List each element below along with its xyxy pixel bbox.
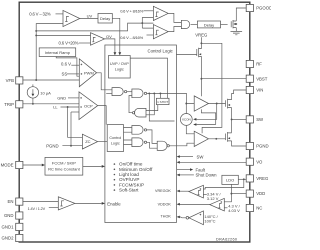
svg-text:1.4V / 1.2V: 1.4V / 1.2V	[28, 207, 46, 211]
arrow into XCON lower	[193, 123, 196, 126]
pin VFB	[6, 77, 23, 84]
box Delay (PGOOD)	[197, 21, 220, 28]
svg-text:GND1: GND1	[2, 225, 15, 230]
arrow into control logic (Enable)	[102, 202, 105, 205]
svg-text:VREG: VREG	[256, 176, 269, 181]
wire VREG sense to VREGOK comparator	[203, 179, 243, 189]
pin GND	[4, 212, 23, 219]
wire OCP output to lower control logic	[98, 106, 107, 125]
svg-text:100°C: 100°C	[204, 219, 215, 224]
svg-text:Control: Control	[109, 136, 121, 140]
pin VREG	[246, 175, 269, 182]
wire GND to OCP comparator	[68, 97, 79, 99]
pin VBST	[246, 75, 268, 82]
svg-text:EN: EN	[8, 199, 14, 204]
wire ref to UV comparator + input	[56, 13, 64, 15]
arrow into control logic (FCCM)	[102, 165, 105, 168]
svg-text:VREGOK: VREGOK	[155, 189, 171, 193]
svg-text:XCON: XCON	[182, 118, 191, 122]
wire 0.6V to PWM comparator	[71, 64, 79, 66]
svg-text:Shut Down: Shut Down	[196, 173, 218, 178]
transistor boot switch FET	[197, 43, 202, 59]
svg-text:UV: UV	[87, 14, 93, 19]
ground PGOOD FET	[231, 31, 243, 34]
svg-text:OCP: OCP	[84, 103, 93, 108]
svg-text:VFB: VFB	[6, 78, 14, 83]
node VREG branch	[200, 42, 202, 44]
svg-text:VO: VO	[256, 159, 263, 164]
gate5 NAND	[132, 138, 147, 147]
wire XCON to LS driver input	[186, 125, 194, 134]
comparator PWM	[79, 59, 96, 87]
comparator PGOOD upper	[153, 6, 168, 20]
wire LS source to PGND pin	[232, 141, 247, 146]
signal VO into control logic	[180, 161, 247, 163]
wire boot FET source down to VBST	[200, 59, 202, 96]
wire XCON to HS input line	[185, 104, 187, 114]
current source 10uA	[27, 84, 38, 103]
IC outer border	[19, 2, 250, 242]
svg-text:FCCM / SKIP: FCCM / SKIP	[52, 161, 76, 166]
comparator PGOOD lower	[153, 25, 168, 39]
node VFB trunk corner	[36, 24, 63, 80]
wire VREGOK output to control logic	[180, 190, 189, 192]
pin PGOOD	[246, 4, 272, 11]
list control logic functions	[114, 162, 153, 193]
circle XCON	[180, 114, 192, 126]
arrow into FCCM box	[42, 164, 45, 167]
wire OV output to UVP/OVP logic	[105, 39, 115, 53]
node junction VFB-OVline	[35, 30, 37, 32]
svg-text:PGOOD: PGOOD	[256, 6, 271, 11]
wire OCP lower input	[71, 111, 79, 113]
box Internal Ramp	[39, 48, 75, 57]
svg-text:VDDOK: VDDOK	[158, 202, 172, 206]
svg-text:VBST: VBST	[256, 76, 268, 81]
svg-text:0.6 V – 8/16%: 0.6 V – 8/16%	[120, 35, 143, 40]
box Control Logic (lower)	[107, 125, 123, 152]
pin TRIP	[4, 101, 23, 108]
svg-text:TRIP: TRIP	[4, 102, 14, 107]
pin RF	[246, 60, 262, 67]
wire SS to PWM comparator	[67, 73, 79, 75]
transistor PGOOD open-drain FET	[231, 20, 236, 28]
svg-text:1 SHOT: 1 SHOT	[157, 100, 168, 104]
svg-text:LDO: LDO	[226, 178, 234, 183]
wire 3.34V ref stub	[203, 194, 206, 196]
svg-text:SW: SW	[256, 117, 264, 122]
svg-text:Fault: Fault	[196, 167, 206, 172]
wire Delay2 to PGOOD FET gate	[221, 23, 228, 25]
transistor high-side FET	[226, 99, 232, 109]
svg-text:THOK: THOK	[161, 215, 172, 219]
svg-text:Delay: Delay	[204, 22, 214, 27]
wire XCON sense from HS gate	[196, 104, 216, 120]
pin SW	[246, 116, 264, 123]
wire Delay to UVP/OVP logic	[112, 18, 120, 53]
wire gate1 to gate2	[127, 91, 132, 93]
wire gate6 output to low-side driver	[169, 143, 194, 146]
wire VFB to PGOOD comparators	[36, 23, 153, 31]
arrow into UVP/OVP (UV)	[118, 52, 121, 55]
svg-text:0.6 V: 0.6 V	[61, 62, 71, 67]
wire FCCM box to control logic	[83, 165, 102, 167]
svg-text:GND2: GND2	[2, 236, 15, 241]
gate2 NAND latch	[132, 89, 147, 98]
svg-text:VREG: VREG	[195, 32, 208, 37]
gate1 NAND PWM latch input	[112, 88, 127, 96]
wire PWM comp to gate1	[97, 73, 112, 90]
comparator OCP	[79, 92, 98, 120]
wire VREG pin to LDO	[238, 178, 246, 180]
wire UVP/OVP logic to latch area	[130, 58, 167, 98]
node junction VREG sense	[243, 178, 245, 180]
svg-text:Delay: Delay	[100, 16, 110, 21]
box FCCM/SKIP RC time constant	[45, 157, 83, 175]
wire gate1 lower input stub	[106, 93, 112, 95]
pin NC	[246, 204, 262, 211]
wire fb split to comparator inputs	[142, 17, 153, 28]
wire latch output to high-side driver	[147, 93, 195, 103]
wire CL to gate5 inputs	[124, 140, 132, 145]
wire THOK output to control logic	[180, 216, 187, 219]
box LDO	[222, 175, 238, 184]
wire 4.3V ref stub	[224, 207, 227, 209]
pin GND2	[2, 234, 23, 241]
comparator VDDOK (mirrored)	[210, 198, 225, 211]
wire HS source to SW node	[231, 108, 233, 133]
svg-text:Internal Ramp: Internal Ramp	[45, 50, 71, 55]
wire SW node to pin	[232, 118, 247, 120]
wire ramp to PWM comparator	[56, 57, 79, 77]
svg-text:0.6 V+20%: 0.6 V+20%	[59, 41, 79, 46]
svg-text:GND: GND	[57, 95, 66, 100]
signal Shut Down	[180, 174, 194, 176]
wire XCON in2 from HS driver low side	[196, 109, 215, 124]
node junction VDD	[230, 193, 232, 195]
gate AND PGOOD	[181, 20, 189, 28]
node junction HS input / XCON	[185, 103, 187, 105]
wire lower comp to AND	[168, 27, 181, 32]
svg-text:Logic: Logic	[115, 68, 124, 72]
wire ref to PGOOD lower comparator	[147, 34, 154, 36]
svg-text:ZC: ZC	[85, 139, 90, 144]
pin PGND	[246, 142, 268, 149]
svg-text:VIN: VIN	[256, 88, 263, 93]
signal SW into control logic	[180, 156, 194, 158]
node junctions on latch output	[148, 92, 150, 94]
node junction VFB-PWM	[35, 79, 37, 81]
node junction LL	[67, 106, 69, 108]
svg-text:OV: OV	[106, 34, 112, 39]
gate4 NAND	[132, 126, 147, 135]
transistor low-side FET	[226, 132, 232, 142]
wire gate4 to gate6	[147, 130, 158, 144]
arrow into XCON upper	[193, 118, 196, 121]
wire VREG stub to boot FET	[200, 37, 202, 43]
box Control Logic (main)	[105, 45, 176, 223]
arrow into UVP/OVP (OV)	[114, 52, 117, 55]
node junction PGND branch	[70, 145, 72, 147]
driver high-side	[194, 96, 208, 111]
wire gate3 output to gate2 lower input	[129, 96, 133, 113]
wire internal bus	[149, 93, 174, 121]
wire VFB to OV comparator	[36, 34, 90, 36]
wire MODE pin to FCCM box	[23, 164, 42, 166]
wire PGND up to OCP lower input	[70, 112, 72, 146]
svg-text:Control Logic: Control Logic	[148, 48, 174, 53]
wire ZC output to lower control logic	[98, 141, 108, 143]
svg-text:RC time Constant: RC time Constant	[48, 167, 80, 172]
wire LDO output to VDD	[224, 184, 231, 201]
wire AND to Delay2	[191, 23, 198, 25]
svg-text:VDD: VDD	[256, 191, 265, 196]
box UVP/OVP Logic	[109, 56, 131, 79]
wire UV comp output to Delay	[80, 18, 98, 20]
svg-text:PGND: PGND	[46, 144, 58, 149]
wire VDD node to pin	[231, 193, 246, 195]
svg-text:NC: NC	[256, 206, 262, 211]
wire to 1-shot	[159, 93, 161, 98]
pin VIN	[246, 86, 263, 93]
signal Fault	[177, 169, 190, 171]
node junction SW	[231, 118, 233, 120]
svg-text:SW: SW	[197, 154, 205, 159]
svg-text:PGND: PGND	[256, 144, 268, 149]
comparator EN	[58, 197, 75, 210]
driver low-side	[194, 131, 208, 146]
svg-text:DRA62260: DRA62260	[216, 237, 237, 241]
wire gate5 to gate6	[147, 142, 158, 148]
pin MODE	[1, 161, 23, 168]
svg-text:0.6 V + 8/16%: 0.6 V + 8/16%	[120, 8, 144, 13]
node junction fb split	[141, 22, 143, 24]
wire VFB pin to PWM comparator	[23, 79, 79, 81]
wire PGND to ZC comparator	[62, 145, 82, 147]
wire 1.4V ref to comparator	[49, 206, 59, 208]
pin VO	[246, 158, 263, 165]
svg-text:UVP / OVP: UVP / OVP	[110, 62, 129, 66]
node junction LS gate sense	[215, 138, 217, 140]
comparator VREGOK (mirrored)	[189, 185, 204, 198]
wire FET drain to PGOOD pin	[236, 8, 246, 21]
wire TRIP pin to OCP comparator	[23, 103, 79, 105]
box 1 SHOT	[156, 98, 169, 104]
node junction HS gate sense	[216, 103, 218, 105]
wire LL to OCP comparator	[61, 106, 80, 108]
comparator ZC	[82, 134, 97, 149]
svg-text:4.03 V: 4.03 V	[228, 208, 240, 213]
wire LS driver to LS FET gate	[209, 138, 226, 140]
svg-text:RF: RF	[256, 62, 262, 67]
wire ref to PGOOD upper comparator	[144, 10, 154, 12]
svg-text:Enable: Enable	[107, 202, 121, 207]
node junction VFB-OV input	[35, 34, 37, 36]
wire boot FET gate from control logic	[176, 54, 196, 56]
svg-text:PWM: PWM	[84, 70, 94, 75]
svg-text:Soft-Start: Soft-Start	[119, 188, 139, 193]
wire VDDOK output to control logic	[180, 203, 210, 205]
comparator OV	[91, 33, 105, 46]
node junction TRIP current source	[32, 103, 34, 105]
svg-text:Logic: Logic	[111, 141, 120, 145]
pin EN	[8, 198, 23, 205]
wire ref to OV comparator	[79, 42, 91, 44]
svg-text:SS: SS	[62, 71, 68, 76]
wire FET source to ground	[235, 28, 237, 32]
svg-text:0.6 V – 32%: 0.6 V – 32%	[29, 12, 51, 17]
svg-text:LL: LL	[53, 104, 58, 109]
wire VREG to low-side driver rail	[201, 43, 222, 133]
pin GND1	[2, 223, 23, 230]
wire VIN pin to HS FET drain	[232, 90, 247, 100]
gate3 NAND mirrored	[132, 108, 146, 117]
svg-text:3.12 V: 3.12 V	[207, 196, 219, 201]
wire CL to gate4 inputs	[124, 128, 132, 133]
wire upper comp to AND	[168, 13, 181, 22]
wire latch feedback to gate3	[146, 93, 154, 114]
node junction FET source	[235, 23, 237, 25]
comparator THOK thermal (mirrored)	[186, 211, 203, 225]
comparator UV	[63, 10, 80, 26]
wire VBST to pin	[201, 78, 246, 80]
wire 1-shot output to gate3	[146, 105, 158, 111]
wire LL down to ZC comparator	[68, 107, 83, 137]
node junction VBST	[200, 78, 202, 80]
pin VDD	[246, 190, 265, 197]
svg-text:10 µA: 10 µA	[40, 90, 51, 95]
box Delay (UV)	[98, 14, 112, 24]
wire EN pin to comparator	[23, 200, 58, 202]
gate6 AND driver enable	[157, 141, 167, 150]
wire HS driver to HS FET gate	[209, 103, 226, 105]
wire EN comparator to control logic	[75, 202, 102, 204]
svg-text:GND: GND	[4, 213, 14, 218]
svg-text:MODE: MODE	[1, 163, 14, 168]
